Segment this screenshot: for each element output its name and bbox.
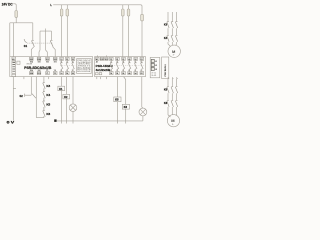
- wire U2 24 drop: [124, 77, 126, 124]
- svg-text:S31: S31: [38, 62, 41, 64]
- wire A1 drop: [13, 23, 15, 58]
- pin A1: [12, 57, 16, 60]
- svg-text:Y2: Y2: [54, 73, 56, 75]
- expansion relay U2 PSR-URM4 body: [95, 57, 146, 77]
- coil K5: [114, 97, 121, 102]
- contactor contact K6 pole3: [175, 100, 177, 107]
- svg-text:S12: S12: [46, 62, 49, 64]
- svg-text:4x1/2x2/B: 4x1/2x2/B: [96, 68, 112, 72]
- svg-text:EN 60204: EN 60204: [77, 71, 90, 73]
- wire fuse F2 drop lower: [61, 16, 63, 57]
- contactor contact K3 pole3: [175, 22, 177, 29]
- U2 contact column 53: [134, 57, 138, 75]
- pin S35 top: [37, 57, 41, 60]
- wire below contact S1-1: [31, 47, 34, 58]
- wire estop bridge: [40, 29, 52, 58]
- svg-text:24VDC/ESL: 24VDC/ESL: [77, 64, 90, 66]
- wire left branch down to relay edge: [9, 23, 11, 57]
- fuse F2: [60, 9, 63, 16]
- emergency stop S1 actuator: [24, 39, 27, 42]
- pin S21 bottom: [37, 72, 41, 75]
- aux contact K3 feedback: [43, 82, 46, 91]
- svg-text:54: 54: [135, 73, 137, 75]
- wire S1 link dashed: [27, 42, 53, 44]
- contact S1-1: [32, 40, 35, 46]
- svg-text:K3: K3: [46, 84, 50, 88]
- logic symbol barcode: [12, 61, 16, 73]
- svg-text:Y2: Y2: [46, 70, 48, 72]
- wire phase L2 upper: [171, 12, 173, 45]
- wire fuse F3 drop upper: [66, 5, 68, 9]
- reset button S2 actuator: [25, 94, 26, 97]
- svg-text:S1: S1: [24, 44, 28, 48]
- U2 contact column 61: [140, 57, 144, 75]
- wire 24V feed: [13, 4, 16, 11]
- wire top bus: [53, 5, 142, 15]
- contactor contact K4 pole1: [167, 35, 169, 42]
- contact S1-2: [50, 40, 53, 46]
- wire phase L3 upper: [176, 12, 177, 46]
- pin 14 bottom: [60, 72, 64, 75]
- wire stub pin 24a: [23, 77, 25, 80]
- wire contact link dashed U1: [60, 65, 76, 67]
- contactor contact K5 pole1: [167, 87, 169, 94]
- node 0V bus marker: [54, 119, 56, 122]
- svg-text:2x1/B/300: 2x1/B/300: [77, 62, 90, 64]
- svg-text:S21: S21: [54, 62, 57, 64]
- svg-text:14: 14: [60, 73, 62, 75]
- wire stub U2 T1: [96, 77, 98, 80]
- wire phase L2 lower terminal: [172, 77, 173, 115]
- motor M2: [167, 115, 179, 127]
- wire 24V rail: [10, 22, 33, 24]
- wire phase L1 lower terminal: [168, 77, 171, 117]
- fuse F5: [127, 9, 130, 16]
- contactor contact K3 pole1: [167, 22, 169, 29]
- wire 14 drop: [61, 77, 63, 124]
- svg-text:24: 24: [66, 73, 68, 75]
- svg-text:K5: K5: [46, 103, 50, 107]
- pin S33 top: [30, 57, 34, 60]
- svg-text:S34: S34: [30, 62, 33, 64]
- pin U2 A1: [96, 57, 99, 60]
- wire S21 straight drop: [35, 77, 37, 118]
- wire below contact S1-2: [53, 47, 56, 58]
- svg-text:IEC 60947: IEC 60947: [77, 67, 90, 69]
- wire bridge leg to pin S21: [39, 40, 40, 57]
- svg-text:K4: K4: [46, 93, 50, 97]
- pin 13 top: [60, 57, 64, 60]
- wire U2 stub S12: [105, 55, 107, 57]
- pin S22 top: [53, 57, 57, 60]
- aux contact K4 feedback: [43, 92, 46, 101]
- svg-text:S11: S11: [46, 59, 49, 61]
- wire phase L1 upper: [168, 12, 171, 46]
- aux contact K5 feedback: [43, 101, 46, 110]
- fuse F1: [15, 11, 18, 18]
- contactor contact K6 pole1: [167, 100, 169, 107]
- svg-text:PSR-TBUS-2: PSR-TBUS-2: [165, 64, 167, 77]
- svg-text:S22: S22: [54, 59, 57, 61]
- svg-text:S33: S33: [30, 59, 33, 61]
- svg-text:44: 44: [128, 73, 130, 75]
- wire fuse F2 drop upper: [61, 5, 63, 9]
- wire fuse F3 drop lower: [66, 16, 68, 57]
- X1 clamp 2: [151, 63, 154, 66]
- coil K6: [122, 104, 129, 109]
- U2 contact column 23: [116, 57, 120, 75]
- wire stub U2 A2: [100, 77, 102, 80]
- svg-text:EN 50178: EN 50178: [77, 69, 90, 71]
- pin 24 bottom: [66, 72, 70, 75]
- wire stub pin 48: [48, 77, 50, 80]
- contactor contact K6 pole2: [171, 100, 173, 107]
- svg-text:Y1: Y1: [46, 73, 48, 75]
- svg-text:14: 14: [110, 73, 112, 75]
- relay contact 13-14: [60, 60, 63, 71]
- wire F6 drop to relay contact: [141, 21, 143, 57]
- motor M1: [168, 45, 180, 57]
- reset button S2 contact: [26, 94, 36, 99]
- svg-text:2966171: 2966171: [77, 65, 90, 67]
- pin U2 T1 mark: [96, 73, 99, 75]
- fuse F6 power: [141, 14, 144, 21]
- wire fuse F5 drop lower: [128, 16, 130, 57]
- wire tick: [13, 88, 16, 90]
- svg-text:S35: S35: [37, 59, 40, 61]
- wire U2 62 drop to lamp: [142, 77, 143, 121]
- pin 34 bottom: [71, 72, 75, 75]
- U2 contact column 13: [110, 57, 114, 75]
- wire fuse F4 drop lower: [122, 16, 124, 57]
- terminal block X1: [150, 57, 160, 77]
- lamp P2: [139, 108, 147, 116]
- contactor contact K3 pole2: [171, 22, 173, 29]
- wire U2 14 drop: [116, 77, 118, 124]
- fuse F4: [122, 9, 125, 16]
- wire contact link dashed U2: [110, 65, 144, 67]
- wire phase L3 lower terminal: [176, 77, 178, 115]
- pin U2 A2 bottom: [99, 73, 102, 75]
- wire loop bottom: [36, 117, 44, 119]
- U2 contact column 33: [122, 57, 126, 75]
- svg-text:L2: L2: [155, 65, 157, 67]
- pin U2 S12: [105, 57, 108, 60]
- jumper box: [17, 61, 20, 64]
- contactor contact K4 pole2: [171, 35, 173, 42]
- svg-text:S11: S11: [100, 59, 103, 61]
- pin 33 top: [71, 57, 75, 60]
- relay contact 23-24: [66, 60, 69, 71]
- contactor contact K5 pole2: [171, 87, 173, 94]
- pin S11 top: [46, 57, 50, 60]
- lamp P1: [69, 104, 77, 112]
- wire S34 drop to reset: [30, 77, 32, 95]
- contactor contact K4 pole3: [175, 35, 177, 42]
- svg-text:S2: S2: [20, 94, 24, 98]
- svg-text:34: 34: [122, 73, 124, 75]
- wire chain riser top: [43, 77, 45, 83]
- svg-text:30 441: 30 441: [151, 75, 156, 77]
- pin A2: [12, 74, 16, 76]
- svg-text:34: 34: [72, 73, 74, 75]
- wire S1 contact feed: [32, 23, 34, 40]
- wire U2 stub A1: [96, 55, 98, 57]
- svg-text:S12: S12: [105, 59, 108, 61]
- contactor contact K5 pole3: [175, 87, 177, 94]
- svg-text:Y3: Y3: [54, 70, 56, 72]
- fuse F3: [66, 9, 69, 16]
- wire fuse F1 to rail: [15, 17, 17, 22]
- svg-text:PSR-SDC4/: PSR-SDC4/: [77, 60, 91, 62]
- svg-text:24V DC: 24V DC: [2, 2, 13, 6]
- wire bottom bus: [57, 120, 143, 122]
- pin Y2 bottom: [53, 72, 57, 75]
- wire 24 drop: [66, 77, 68, 124]
- wire 34 drop to lamp: [72, 77, 74, 124]
- wire fuse F4 drop upper: [122, 5, 124, 9]
- pin U2 S11: [100, 57, 103, 60]
- svg-text:S32: S32: [38, 70, 41, 72]
- svg-text:K6: K6: [46, 112, 50, 116]
- svg-text:S21: S21: [37, 73, 40, 75]
- svg-text:24: 24: [116, 73, 118, 75]
- svg-text:UT 2,5: UT 2,5: [151, 73, 156, 75]
- X1 clamp 1: [151, 59, 154, 62]
- safety relay U1 PSR-SDC4 body: [10, 57, 93, 77]
- pin Y1 bottom: [46, 72, 50, 75]
- svg-text:A1: A1: [96, 58, 98, 61]
- X1 clamp 3: [151, 67, 154, 70]
- svg-text:L3: L3: [155, 69, 157, 71]
- aux contact K6 feedback: [43, 110, 46, 117]
- svg-text:62: 62: [141, 73, 143, 75]
- pin S34 bottom: [30, 72, 34, 75]
- terminal block X2 label plate: [162, 57, 169, 79]
- wire fuse F5 drop upper: [128, 5, 130, 9]
- wire A2 to 0V: [12, 77, 14, 121]
- relay contact 33-34: [72, 60, 75, 71]
- U2 contact column 43: [128, 57, 132, 75]
- svg-text:S36: S36: [30, 70, 33, 72]
- pin 23 top: [66, 57, 70, 60]
- wire stub U2 S21: [105, 77, 107, 80]
- coil K2: [63, 94, 70, 99]
- coil K1: [58, 86, 65, 91]
- U1 spec text box: [77, 59, 92, 74]
- svg-text:L1: L1: [155, 61, 157, 63]
- svg-text:S34: S34: [30, 73, 33, 75]
